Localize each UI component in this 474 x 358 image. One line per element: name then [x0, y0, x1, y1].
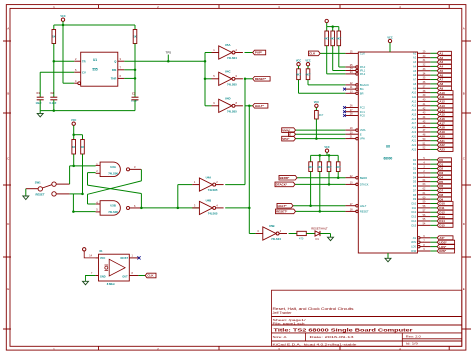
wire U3B out to U3A in (cross) — [88, 173, 142, 208]
wire D1 to ground — [320, 234, 331, 238]
svg-text:VPA*: VPA* — [282, 137, 290, 141]
pin 6 AS — [413, 235, 453, 240]
node BERR* — [279, 175, 297, 180]
pin 7 UDS — [411, 239, 455, 244]
pin 2 D3 — [413, 170, 452, 175]
svg-text:9: 9 — [213, 101, 215, 105]
junction R3 / U3A input — [72, 165, 75, 168]
junction VCC latch — [72, 133, 75, 136]
pin 23 IPL2 — [345, 71, 365, 76]
svg-text:A19: A19 — [412, 131, 417, 134]
svg-text:R/W*: R/W* — [439, 249, 447, 253]
svg-text:3: 3 — [134, 165, 136, 169]
wire U3A out to U3B in (cross) — [88, 169, 142, 204]
pin 62 D7 — [413, 188, 452, 193]
svg-text:8 MHz: 8 MHz — [107, 282, 116, 286]
svg-text:FC0: FC0 — [360, 114, 365, 118]
wire U5A output — [245, 52, 253, 54]
resistor R11 (DTACK pullup) — [327, 155, 332, 184]
pin 46 A18 — [412, 125, 453, 130]
resistor R13 (IPL2 pullup) — [324, 27, 345, 74]
svg-text:14: 14 — [89, 255, 92, 258]
no-connect FC1 — [343, 110, 346, 113]
svg-text:4: 4 — [280, 229, 282, 233]
svg-text:SW1: SW1 — [35, 180, 41, 184]
power VCC (68000) — [387, 36, 392, 52]
pin 43 A15 — [412, 112, 453, 117]
svg-text:74LS05: 74LS05 — [208, 212, 218, 216]
op-amp U5A 74LS04 — [212, 43, 243, 60]
svg-text:VCC: VCC — [71, 119, 76, 122]
svg-text:A17: A17 — [412, 122, 417, 125]
junction C2 ground — [53, 109, 56, 112]
junction TP5 — [167, 60, 170, 63]
node VPA* — [282, 136, 296, 141]
pin 12 BGACK — [345, 82, 369, 87]
svg-text:RESET/HALT: RESET/HALT — [311, 227, 328, 231]
pin 34 A6 — [413, 72, 451, 77]
pin 20 E — [296, 131, 362, 136]
pin 60 D9 — [413, 196, 452, 201]
svg-text:2: 2 — [75, 57, 77, 61]
ground (68000) — [385, 253, 391, 262]
svg-text:4K7: 4K7 — [324, 36, 329, 40]
svg-text:E: E — [463, 287, 465, 291]
no-connect NC/ST — [137, 256, 140, 259]
svg-text:7: 7 — [120, 66, 122, 70]
pin 21 VPA — [296, 136, 366, 141]
pin 48 A20 — [412, 134, 453, 139]
svg-text:6: 6 — [120, 74, 122, 78]
svg-text:4K7: 4K7 — [306, 72, 311, 76]
junction bus rail 2 — [328, 154, 331, 157]
node CLK (oscillator) — [145, 273, 156, 278]
svg-text:VMA: VMA — [360, 128, 366, 132]
pin 50 A21 — [412, 138, 453, 143]
svg-text:10uF: 10uF — [36, 101, 42, 105]
svg-text:A18: A18 — [412, 127, 417, 130]
svg-text:74LS04: 74LS04 — [227, 56, 237, 60]
svg-text:CLK: CLK — [309, 52, 316, 56]
junction R1/TR/C2 — [53, 60, 56, 63]
node TP5 — [166, 50, 172, 61]
pin 63 D6 — [413, 183, 452, 188]
svg-text:TR: TR — [82, 59, 86, 63]
resistor R6 (BGACK pullup) — [306, 66, 346, 85]
svg-text:C3: C3 — [132, 91, 136, 95]
svg-text:4K7: 4K7 — [296, 72, 301, 76]
node HALT* (CPU) — [277, 203, 293, 208]
wire TR to R1 — [54, 60, 74, 62]
wire ground rail — [40, 110, 135, 112]
wire latch output — [141, 207, 199, 209]
svg-text:8: 8 — [236, 101, 238, 105]
pin 33 A5 — [413, 68, 451, 73]
op-amp U4A 74LS05 — [192, 175, 223, 192]
junction DTACK pullup — [328, 183, 331, 186]
svg-text:VCC: VCC — [60, 15, 65, 18]
svg-text:74LS04: 74LS04 — [271, 237, 281, 241]
svg-text:RESET: RESET — [36, 193, 45, 197]
svg-text:VCC: VCC — [314, 101, 319, 104]
wire THR to C3 — [124, 70, 135, 97]
resistor R3 — [72, 135, 76, 166]
svg-text:IPL1: IPL1 — [360, 69, 366, 73]
svg-text:D1: D1 — [316, 237, 320, 241]
svg-text:BERR*: BERR* — [280, 176, 291, 180]
power VCC (BR pullup) — [296, 60, 301, 66]
pin 31 A3 — [413, 59, 451, 64]
svg-text:CV: CV — [82, 70, 86, 74]
svg-text:D4: D4 — [413, 176, 417, 179]
pin 57 D12 — [412, 209, 453, 214]
svg-text:U3A: U3A — [110, 165, 116, 169]
svg-text:74LS05: 74LS05 — [227, 109, 237, 113]
pin 5 D0 — [413, 157, 452, 162]
svg-text:VCC: VCC — [100, 257, 105, 260]
op-amp U3A 74LS00 — [96, 162, 142, 177]
svg-text:1: 1 — [213, 48, 215, 52]
svg-text:E: E — [360, 132, 362, 136]
junction Q riser 2 — [204, 78, 207, 81]
svg-text:74LS00: 74LS00 — [108, 172, 118, 176]
wire VCC to R4 — [74, 135, 83, 140]
svg-text:C: C — [463, 157, 466, 161]
svg-text:7: 7 — [91, 272, 93, 275]
power VCC (latch pullups) — [71, 119, 76, 135]
svg-text:File: page1.sch: File: page1.sch — [273, 321, 305, 325]
junction U3B output — [140, 207, 143, 210]
svg-text:D5: D5 — [413, 181, 417, 184]
junction THR — [134, 77, 137, 80]
node E — [289, 132, 296, 137]
svg-text:AS: AS — [413, 237, 417, 240]
op-amp U5B 74LS04 — [256, 224, 287, 241]
svg-text:DTACK: DTACK — [360, 183, 369, 187]
junction HALT* net at U4B — [248, 207, 251, 210]
pin 18 RESET — [296, 209, 369, 214]
ground (switch) — [23, 189, 29, 200]
pin 10 DTACK — [295, 182, 369, 187]
power VCC (VPA pullup) — [314, 101, 319, 107]
ground (oscillator) — [83, 276, 96, 285]
junction R4 / switch — [81, 193, 84, 196]
junction RESET* net — [244, 78, 247, 81]
node PUP* — [253, 50, 266, 55]
svg-text:4K7: 4K7 — [308, 165, 313, 169]
op-amp U4D 74LS05 — [212, 97, 243, 114]
svg-text:Id: 1/9: Id: 1/9 — [406, 342, 418, 346]
resistor R5 (BR pullup) — [296, 66, 345, 93]
wire VCC rail to R1/R2 — [54, 24, 135, 26]
svg-text:D8: D8 — [413, 194, 417, 197]
pin 4 D1 — [413, 161, 452, 166]
capacitor C1 10uF — [36, 91, 44, 111]
junction bus rail 1 — [319, 154, 322, 157]
svg-text:A: A — [463, 27, 465, 31]
svg-text:VCC: VCC — [305, 60, 310, 63]
svg-text:4K7: 4K7 — [319, 113, 324, 117]
svg-text:U4D: U4D — [225, 97, 231, 101]
svg-text:FC1: FC1 — [360, 110, 365, 114]
svg-text:5: 5 — [75, 68, 77, 72]
svg-text:68000: 68000 — [383, 157, 392, 161]
svg-text:IPL0: IPL0 — [360, 65, 366, 69]
svg-text:KiCad E.D.A. kicad 4.0.2+dfsg: KiCad E.D.A. kicad 4.0.2+dfsg1-stable — [273, 342, 357, 346]
svg-text:555: 555 — [92, 68, 98, 72]
node RESET* (CPU) — [276, 209, 296, 214]
svg-text:C1: C1 — [37, 91, 41, 95]
power VCC (555 section) — [60, 15, 65, 25]
svg-text:U4C: U4C — [225, 70, 231, 74]
svg-text:A23: A23 — [439, 148, 445, 152]
svg-text:1: 1 — [132, 255, 134, 258]
svg-text:5: 5 — [96, 208, 98, 212]
pin 36 A8 — [413, 81, 451, 86]
pin 58 D11 — [412, 205, 453, 210]
no-connect FC0 — [343, 114, 346, 117]
node RESET* (gate output) — [253, 77, 270, 82]
svg-text:VPA: VPA — [360, 137, 365, 141]
svg-text:TP5: TP5 — [166, 50, 172, 54]
wire bus pullup rail — [311, 154, 339, 156]
wire Q to inverter inputs — [205, 53, 212, 106]
svg-text:UDS: UDS — [411, 241, 417, 244]
pin 41 A13 — [412, 103, 453, 108]
pin 15 CLK — [345, 51, 365, 56]
svg-text:D9: D9 — [413, 198, 417, 201]
pin 38 A10 — [412, 90, 453, 95]
svg-text:A20: A20 — [412, 135, 417, 138]
svg-text:2: 2 — [236, 48, 238, 52]
svg-text:5: 5 — [213, 74, 215, 78]
wire U5B out to R8 — [289, 233, 297, 235]
pin 25 IPL0 — [345, 64, 365, 69]
svg-text:RESET*: RESET* — [255, 77, 267, 81]
junction VCC stem — [62, 24, 65, 27]
svg-text:RESET: RESET — [360, 210, 369, 214]
svg-text:FC2: FC2 — [360, 106, 365, 110]
node HALT* (gate output) — [253, 104, 268, 109]
svg-text:A21: A21 — [412, 140, 417, 143]
junction Q riser 1 — [204, 60, 207, 63]
svg-text:BGACK: BGACK — [360, 83, 369, 87]
wire U4C output — [245, 78, 253, 80]
svg-text:A1: A1 — [413, 52, 417, 55]
svg-text:D1: D1 — [413, 163, 417, 166]
svg-text:1K: 1K — [52, 35, 55, 39]
svg-text:8: 8 — [132, 272, 134, 275]
svg-text:A: A — [7, 27, 9, 31]
wire R8 to D1 — [306, 233, 315, 235]
pin 22 BERR — [297, 175, 367, 180]
pin 51 A22 — [412, 142, 453, 147]
wire OUT to CLK label — [138, 275, 145, 277]
svg-text:1K: 1K — [72, 145, 75, 149]
svg-text:B: B — [7, 92, 9, 96]
resistor R2 — [133, 25, 137, 70]
junction latch output split — [177, 207, 180, 210]
svg-text:A10: A10 — [412, 92, 417, 95]
wire CLK to 68000 — [320, 52, 345, 54]
svg-text:74LS00: 74LS00 — [108, 210, 118, 214]
no-connect FC2 — [343, 106, 346, 109]
pin 44 A16 — [412, 116, 453, 121]
crystal oscillator X1 8MHz — [89, 249, 138, 286]
svg-text:A13: A13 — [412, 105, 417, 108]
pin 1 D4 — [413, 174, 452, 179]
op-amp U4B 74LS05 — [192, 199, 223, 216]
pin 26 FC2 — [345, 105, 365, 110]
junction HALT pullup — [309, 204, 312, 207]
svg-text:1K: 1K — [133, 35, 136, 39]
pin 19 VMA — [296, 127, 366, 132]
junction VPA pullup — [315, 137, 318, 140]
svg-text:D: D — [463, 222, 466, 226]
pin 3 D2 — [413, 166, 452, 171]
svg-text:A14: A14 — [412, 109, 417, 112]
svg-text:6: 6 — [236, 74, 238, 78]
wire U4D output — [245, 105, 253, 107]
pin 39 A11 — [412, 94, 453, 99]
svg-text:A8: A8 — [413, 83, 417, 86]
svg-text:D14: D14 — [412, 220, 417, 223]
ground (555 section) — [37, 111, 43, 117]
svg-text:U3B: U3B — [110, 204, 116, 208]
svg-text:BR: BR — [360, 91, 364, 95]
svg-text:2: 2 — [96, 169, 98, 173]
wire U4A output to RESET* net — [225, 79, 245, 185]
svg-text:LDS: LDS — [411, 246, 416, 249]
svg-text:AS*: AS* — [439, 236, 445, 240]
svg-text:D11: D11 — [412, 207, 417, 210]
node CLK (CPU) — [309, 51, 321, 56]
pin 17 HALT — [293, 203, 367, 208]
svg-text:A7: A7 — [413, 79, 417, 82]
pin 28 FC0 — [345, 113, 365, 118]
junction RESET pullup — [319, 210, 322, 213]
svg-text:4K7: 4K7 — [327, 165, 332, 169]
svg-text:4K7: 4K7 — [336, 165, 341, 169]
no-connect BG — [343, 88, 346, 91]
svg-text:A12: A12 — [412, 100, 417, 103]
resistor R7 (VPA pullup) — [315, 108, 324, 139]
wire to U4A input — [178, 185, 192, 208]
wire switch to U3A input 1 — [70, 166, 96, 184]
svg-text:DIS: DIS — [112, 68, 117, 72]
svg-text:Rev: 2.0: Rev: 2.0 — [406, 335, 421, 339]
diode D1 RESET/HALT LED — [311, 227, 328, 242]
svg-text:E: E — [7, 287, 9, 291]
resistor R9 (HALT pullup) — [308, 155, 313, 205]
svg-text:PUP*: PUP* — [255, 51, 263, 55]
pin 42 A14 — [412, 107, 453, 112]
svg-text:U5A: U5A — [225, 43, 231, 47]
pin 35 A7 — [413, 77, 451, 82]
svg-text:1: 1 — [194, 180, 196, 184]
wire Q output — [124, 60, 205, 62]
pin 64 D5 — [413, 179, 452, 184]
junction IPL rail — [331, 25, 334, 28]
junction DIS — [134, 69, 137, 72]
svg-text:Date: 2016-09-13: Date: 2016-09-13 — [310, 335, 354, 339]
capacitor C2 — [50, 61, 58, 110]
pin 52 A23 — [412, 147, 453, 152]
svg-text:470: 470 — [299, 236, 304, 240]
svg-text:C2: C2 — [51, 91, 55, 95]
svg-text:Title: TS2 68000 Single Board: Title: TS2 68000 Single Board Computer — [274, 328, 413, 333]
svg-text:VCC: VCC — [324, 146, 329, 149]
wire to U5B input — [249, 233, 255, 235]
svg-text:0.1uF: 0.1uF — [50, 101, 57, 105]
svg-text:X1: X1 — [99, 249, 103, 253]
svg-text:6: 6 — [134, 204, 136, 208]
svg-text:A9: A9 — [413, 87, 417, 90]
svg-text:A11: A11 — [412, 96, 417, 99]
svg-text:D2: D2 — [413, 168, 417, 171]
svg-text:OUT: OUT — [122, 275, 128, 278]
op-amp U1 555 timer — [74, 52, 124, 86]
pin 45 A17 — [412, 120, 453, 125]
svg-text:74LS05: 74LS05 — [227, 82, 237, 86]
pin 55 D14 — [412, 218, 453, 223]
svg-text:CLK: CLK — [147, 274, 154, 278]
svg-text:BERR: BERR — [360, 176, 367, 180]
wire U4B output to HALT* net — [225, 106, 249, 234]
svg-text:D7: D7 — [413, 189, 417, 192]
svg-text:D6: D6 — [413, 185, 417, 188]
svg-text:D13: D13 — [412, 216, 417, 219]
svg-text:74LS05: 74LS05 — [208, 188, 218, 192]
capacitor C3 0.1uF — [131, 91, 139, 110]
resistor R12 (BERR pullup) — [336, 155, 341, 177]
resistor R8 — [297, 231, 306, 240]
power VCC (oscillator) — [83, 248, 96, 258]
svg-text:E: E — [289, 132, 291, 136]
pin 29 A1 — [413, 51, 451, 56]
wire VCC to 555 pin 4 — [63, 25, 74, 83]
processor U8 68000 — [358, 52, 417, 253]
junction switch riser — [72, 210, 75, 213]
pin 54 D15 — [412, 223, 453, 228]
svg-text:HALT: HALT — [360, 204, 367, 208]
svg-text:A15: A15 — [412, 113, 417, 116]
svg-text:IPL2: IPL2 — [360, 72, 366, 76]
ground (LED) — [328, 237, 334, 241]
svg-text:2: 2 — [216, 180, 218, 184]
svg-text:UDS*: UDS* — [439, 240, 447, 244]
svg-text:HALT*: HALT* — [278, 204, 288, 208]
svg-text:R/W: R/W — [411, 250, 417, 253]
svg-text:A22: A22 — [412, 144, 417, 147]
svg-text:BG: BG — [360, 87, 364, 91]
svg-text:VCC: VCC — [296, 60, 301, 63]
pin 56 D13 — [412, 214, 453, 219]
svg-text:4K7: 4K7 — [317, 165, 322, 169]
svg-text:VCC: VCC — [387, 36, 392, 39]
svg-text:A23: A23 — [412, 148, 417, 151]
svg-text:4K7: 4K7 — [330, 36, 335, 40]
svg-text:3: 3 — [194, 203, 196, 207]
svg-text:1K: 1K — [81, 145, 84, 149]
pin 30 A2 — [413, 55, 451, 60]
resistor R15 (IPL0 pullup) — [336, 27, 345, 67]
svg-text:D0: D0 — [413, 159, 417, 162]
junction BERR pullup — [337, 176, 340, 179]
wire switch to U3B input 5 — [70, 194, 96, 212]
svg-text:A2: A2 — [413, 57, 417, 60]
svg-text:U4B: U4B — [206, 199, 212, 203]
